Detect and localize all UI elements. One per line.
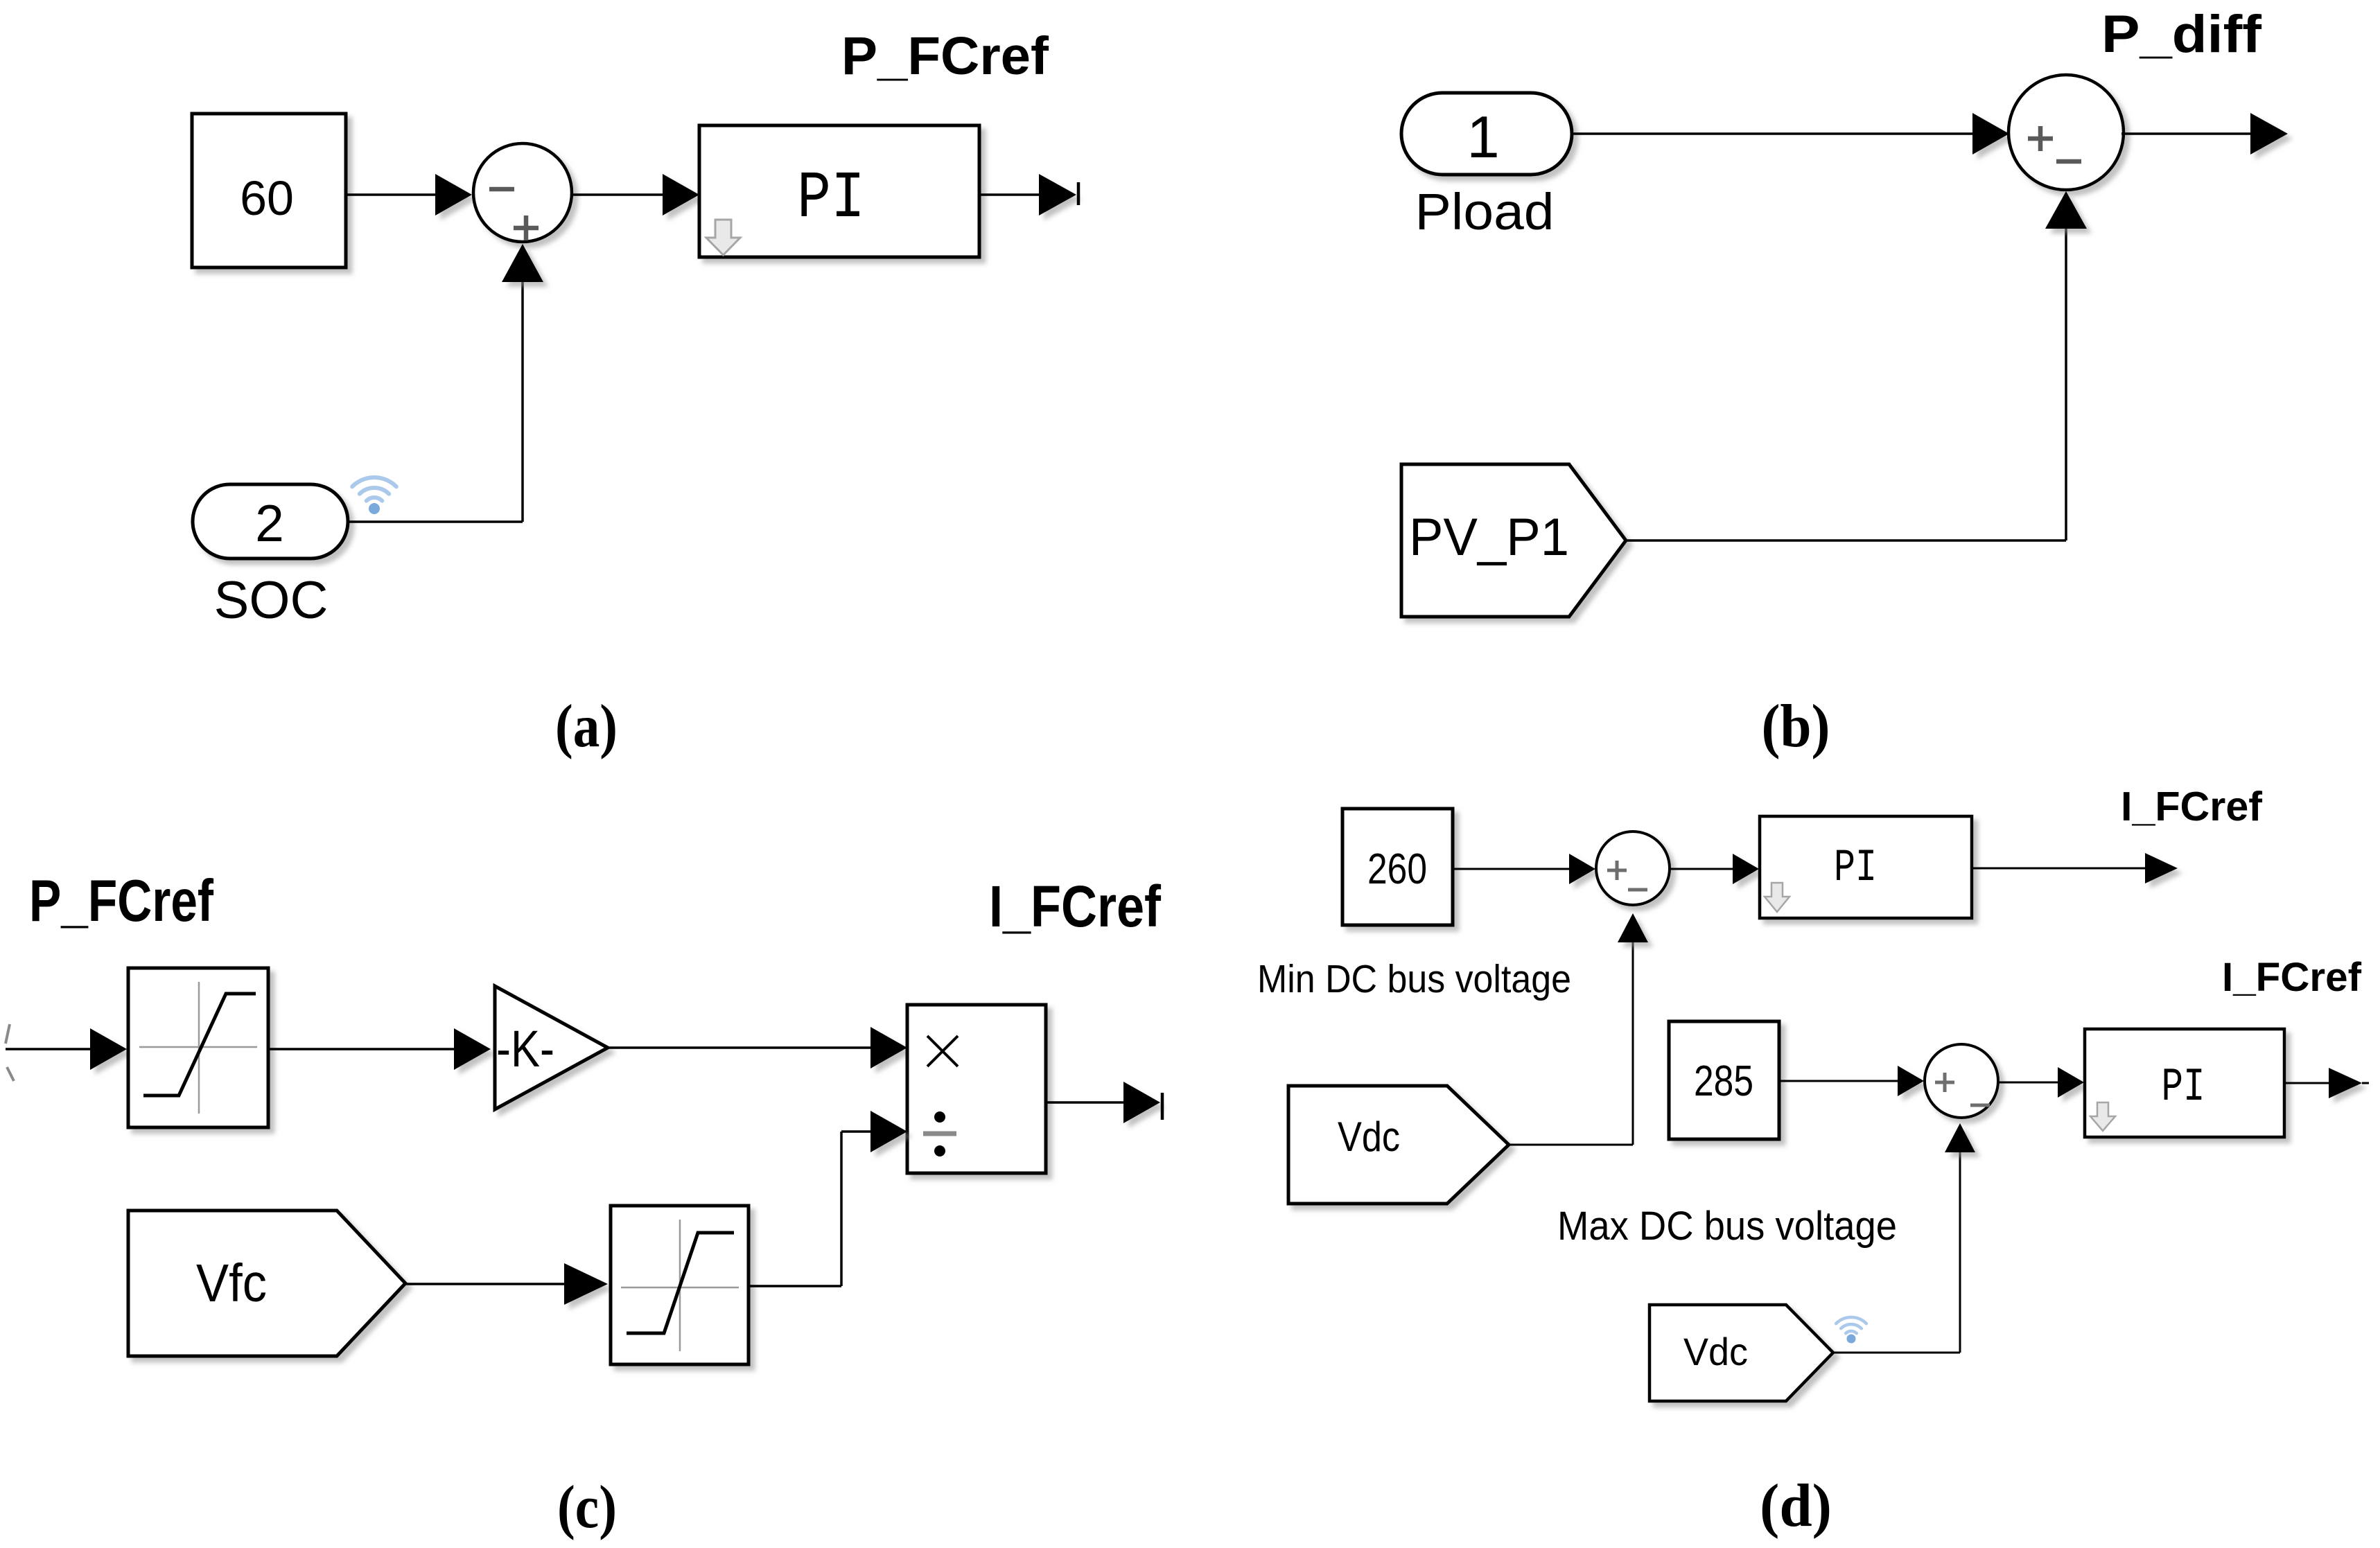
output arrowhead (b) [2250,113,2288,155]
arrowhead into Sum3 [1569,854,1595,884]
sum block Sum2 [2009,75,2124,190]
wire 60 to Sum1 [346,193,437,196]
sum block Sum1 [473,143,572,242]
From tag Vfc [128,1211,405,1356]
svg-text:Max DC bus voltage: Max DC bus voltage [1557,1204,1897,1249]
Sum4 minus sign [1970,1104,1990,1107]
wire Sum3 to PI (d1) [1669,868,1734,870]
wireless icon (d) [1836,1317,1866,1333]
saturation block Saturation2 [611,1206,749,1364]
PI block grey drop icon (a) [706,220,740,255]
svg-text:(b): (b) [1762,693,1830,760]
output port tick (c) [1161,1093,1164,1120]
From tag PV_P1 [1401,464,1626,617]
svg-text:P_diff: P_diff [2101,5,2262,64]
svg-text:P_FCref: P_FCref [29,868,214,934]
arrowhead into Gain [454,1028,491,1070]
svg-text:PI: PI [1834,842,1877,894]
output port tick (a) [1077,182,1080,205]
svg-text:Vdc: Vdc [1338,1114,1400,1160]
svg-text:285: 285 [1694,1057,1753,1105]
constant block 285 [1669,1021,1779,1139]
wire 285 to Sum4 [1779,1080,1899,1082]
svg-text:I_FCref: I_FCref [2121,784,2262,829]
PI d1 grey drop icon [1765,883,1790,912]
svg-text:Vfc: Vfc [196,1254,267,1313]
wire PV_P1 horizontal [1626,539,2066,542]
svg-text:I_FCref: I_FCref [989,874,1162,939]
arrowhead into PI [663,174,699,216]
wire SOC to Sum1 (horizontal) [348,520,523,523]
From tag Vdc (bottom) [1650,1305,1833,1401]
wire PI d1 output [1972,868,2146,870]
arrowhead into Sum4 [1898,1066,1924,1096]
wire Saturation1 to Gain [268,1048,455,1050]
product divide sign [934,1111,945,1123]
wire Sum2 output [2121,132,2252,135]
PI d2 grey drop icon [2090,1102,2115,1131]
arrowhead into Product divide [870,1111,907,1152]
svg-text:(d): (d) [1760,1472,1832,1540]
wire Gain to Product [608,1046,872,1049]
arrowhead up into Sum1 [502,244,543,282]
arrowhead into Sum1 [435,174,472,216]
wire Sum4 to PI (d2) [1997,1082,2059,1084]
output stub line (d2) [2362,1082,2369,1084]
sum block Sum4 [1925,1044,1998,1118]
arrowhead into Sum2 [1972,113,2009,155]
product block [907,1005,1046,1173]
wire input to Saturation1 [6,1048,91,1050]
wire Sum1 to PI [572,193,664,196]
output arrowhead (d2) [2329,1068,2362,1098]
wire Vdc to Sum3 (horizontal) [1509,1144,1633,1146]
arrowhead into Saturation1 [90,1028,127,1070]
svg-text:PV_P1: PV_P1 [1409,508,1569,567]
svg-text:(a): (a) [555,693,618,760]
svg-text:P_FCref: P_FCref [841,26,1049,86]
wireless icon (a) [352,477,396,501]
svg-text:2: 2 [255,494,284,552]
Sum2 plus sign [2028,137,2053,141]
product multiply sign [927,1036,958,1066]
svg-text:I_FCref: I_FCref [2222,955,2362,1000]
Sum1 plus sign [514,226,539,231]
output arrowhead (d1) [2145,853,2178,883]
wire Vfc to Saturation2 [405,1283,566,1285]
Sum2 minus sign [2056,159,2081,164]
Sum3 minus sign [1628,888,1647,892]
wire into Product divide [841,1130,872,1133]
PI controller block (a) [699,125,979,257]
wire Pload to Sum2 [1572,132,1974,135]
From tag Vdc (left) [1288,1086,1509,1204]
svg-text:-K-: -K- [496,1020,554,1078]
Sum4 plus sign [1935,1081,1954,1084]
svg-text:PI: PI [2162,1061,2205,1114]
gain block -K- [495,986,608,1109]
wire Vdc to Sum4 (horizontal) [1833,1352,1960,1354]
svg-text:PI: PI [797,161,865,236]
inport oval 1 [1401,93,1572,175]
inport oval 2 [193,484,348,558]
output arrowhead (a) [1039,174,1076,216]
Sum3 plus sign [1607,869,1627,872]
arrowhead up into Sum4 [1945,1123,1975,1152]
svg-text:260: 260 [1367,845,1427,893]
svg-text:SOC: SOC [214,571,329,630]
wire Product output [1046,1101,1125,1104]
wire 260 to Sum3 [1453,868,1570,870]
PI controller block (d2) [2085,1029,2284,1137]
arrowhead into PI (d2) [2058,1067,2084,1098]
arrowhead into Product x [870,1027,907,1068]
svg-text:(c): (c) [557,1474,617,1541]
PI controller block (d1) [1760,816,1972,918]
svg-text:1: 1 [1467,105,1499,170]
wire SOC to Sum1 (vertical) [521,281,524,522]
arrowhead into PI (d1) [1733,854,1759,884]
input stub marks [6,1024,10,1044]
wire Saturation2 to Product (vertical) [840,1132,843,1286]
arrowhead up into Sum2 [2045,191,2087,229]
wire PV_P1 vertical [2065,227,2067,540]
saturation block Saturation1 [128,968,268,1127]
Sum1 minus sign [489,187,514,192]
wire PI d2 output [2284,1082,2330,1084]
wire Saturation2 output [749,1285,841,1287]
svg-text:Vdc: Vdc [1683,1330,1748,1373]
svg-text:Pload: Pload [1415,183,1555,240]
wire Vdc to Sum4 (vertical) [1959,1151,1961,1353]
sum block Sum3 [1596,832,1670,905]
constant block 260 [1342,809,1453,925]
arrowhead into Saturation2 [564,1263,608,1305]
svg-text:Min DC bus voltage: Min DC bus voltage [1257,957,1571,1001]
arrowhead up into Sum3 [1618,913,1648,942]
svg-text:60: 60 [240,171,294,225]
output arrowhead (c) [1123,1082,1160,1123]
wire Vdc to Sum3 (vertical) [1632,941,1634,1145]
constant block 60 [192,114,346,267]
wire PI output [979,193,1040,196]
